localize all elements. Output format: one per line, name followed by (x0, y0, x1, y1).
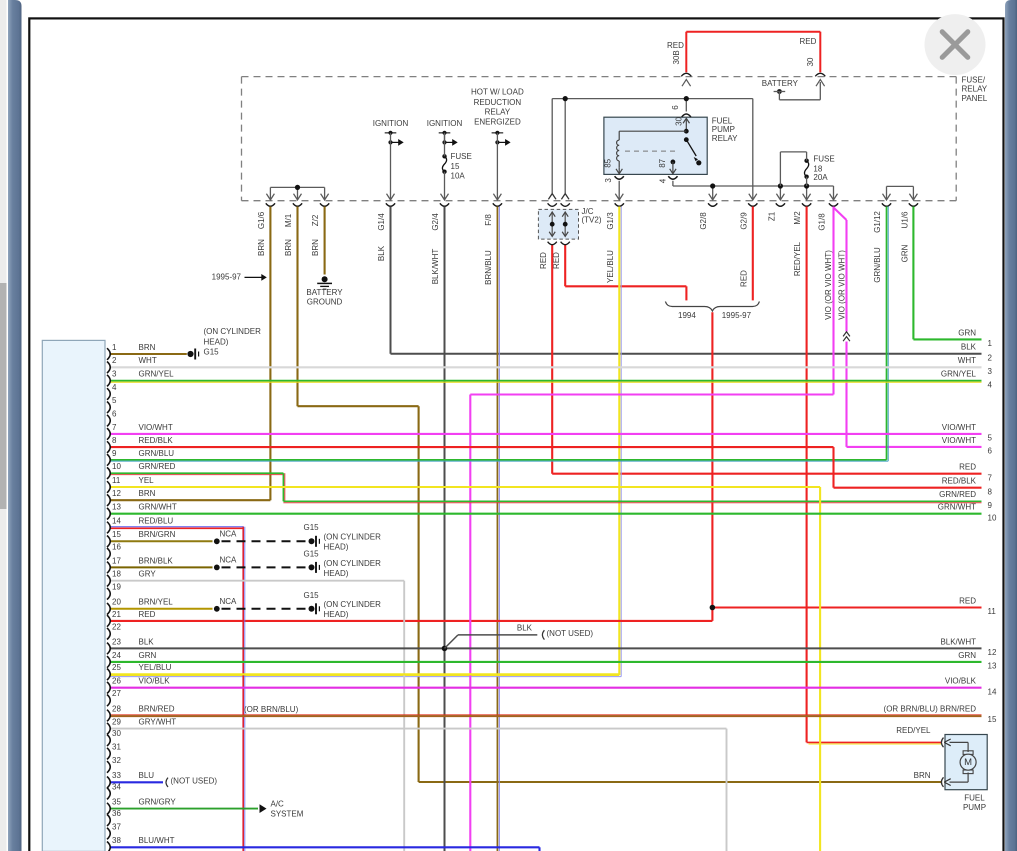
connector G2/9 (panel exit) (748, 194, 757, 207)
svg-text:28: 28 (112, 704, 121, 713)
svg-text:6: 6 (112, 410, 117, 419)
svg-text:GRN: GRN (958, 328, 976, 337)
svg-text:ENERGIZED: ENERGIZED (474, 117, 521, 126)
switched feed symbol HOT-W-LOAD (492, 131, 511, 200)
wire pin10 GRN/RED (110, 473, 982, 503)
inline connector on VIO branch 2 (843, 332, 851, 342)
not-used arc (pin23 stub) (542, 630, 544, 639)
wire RED top feed (30B to 30) (686, 32, 820, 73)
svg-text:13: 13 (988, 662, 997, 671)
svg-text:15: 15 (451, 162, 460, 171)
svg-text:20A: 20A (813, 173, 828, 182)
wire BRN header rail (270, 187, 324, 199)
svg-text:1: 1 (988, 339, 993, 348)
svg-text:FUSE: FUSE (451, 152, 472, 161)
svg-text:32: 32 (112, 756, 121, 765)
svg-text:G1/4: G1/4 (377, 213, 386, 231)
wire pin38 BLU/WHT (110, 847, 540, 851)
svg-text:25: 25 (112, 663, 121, 672)
junction dot relay 30 (684, 129, 689, 134)
label 87 (658, 158, 667, 167)
label FUSE 18 20A (813, 154, 834, 182)
svg-text:2: 2 (112, 356, 117, 365)
relay 87 arrow (670, 162, 676, 174)
svg-text:14: 14 (988, 687, 997, 696)
svg-text:10: 10 (988, 513, 997, 522)
fuse F15 10A (442, 133, 446, 200)
connector J/C feed b (561, 194, 570, 207)
svg-text:GRN/WHT: GRN/WHT (938, 503, 976, 512)
wire RED from brace (110, 312, 982, 621)
label connector G1/12 (873, 211, 882, 233)
svg-text:87: 87 (658, 158, 667, 167)
NCA splice dot (pin20) (214, 606, 220, 612)
connector 30 (panel top) (815, 73, 825, 86)
svg-text:30: 30 (806, 57, 815, 66)
svg-text:GRY/WHT: GRY/WHT (139, 718, 177, 727)
connector J/C feed a (548, 194, 557, 207)
junction dot BRN header (295, 185, 300, 190)
junction dot rail/M2 (804, 183, 809, 188)
svg-text:RED: RED (959, 463, 976, 472)
svg-text:(ON CYLINDER: (ON CYLINDER (204, 327, 262, 336)
svg-text:GRN/GRY: GRN/GRY (139, 798, 177, 807)
svg-text:BATTERY: BATTERY (306, 288, 343, 297)
label 30B (672, 50, 681, 64)
connector M/1 (panel exit) (293, 194, 302, 207)
pump feed connector (RED/YEL) (941, 738, 950, 748)
svg-text:15: 15 (988, 715, 997, 724)
wire bridge G1/12-U1/6 (887, 186, 914, 199)
brace 1994 / 1995-97 (665, 302, 759, 311)
svg-text:29: 29 (112, 718, 121, 727)
svg-text:YEL/BLU: YEL/BLU (139, 663, 172, 672)
svg-text:(TV2): (TV2) (582, 216, 602, 225)
svg-text:FUEL: FUEL (712, 116, 733, 125)
J/C internal wire b (562, 212, 568, 236)
NCA splice dot (pin17) (214, 565, 220, 571)
svg-text:GRN/BLU: GRN/BLU (873, 247, 882, 283)
svg-text:1995-97: 1995-97 (722, 311, 752, 320)
svg-text:BRN: BRN (257, 239, 266, 256)
relay terminal 3 cup (615, 176, 624, 179)
svg-text:16: 16 (112, 543, 121, 552)
J/C internal wire a (549, 212, 555, 236)
svg-text:RED: RED (740, 270, 749, 287)
svg-text:10A: 10A (451, 172, 466, 181)
label NCA (pin17) (220, 556, 238, 565)
svg-text:A/C: A/C (271, 800, 285, 809)
relay 85 arrow (616, 168, 622, 174)
J/C exit cups (548, 242, 570, 245)
svg-text:F/8: F/8 (484, 214, 493, 226)
svg-text:(NOT USED): (NOT USED) (547, 629, 594, 638)
wire J/C RED b column (565, 245, 686, 301)
connector M/2 (panel exit) (802, 194, 811, 207)
svg-text:11: 11 (988, 607, 997, 616)
right pin labels and numbers (884, 328, 997, 724)
svg-text:6: 6 (988, 447, 993, 456)
svg-text:85: 85 (603, 158, 612, 167)
svg-text:21: 21 (112, 610, 121, 619)
wire G1/8 VIO branch 2 (834, 208, 982, 447)
svg-text:20: 20 (112, 598, 121, 607)
svg-text:WHT: WHT (139, 356, 157, 365)
svg-text:HEAD): HEAD) (324, 610, 349, 619)
svg-text:RELAY: RELAY (485, 108, 511, 117)
label wire color GRN at x=905.5 (901, 244, 910, 262)
label 85 (603, 158, 612, 167)
ground G15 (pin20) (309, 603, 320, 614)
svg-text:23: 23 (112, 637, 121, 646)
label (OR BRN/BLU) (pin28) (244, 705, 299, 714)
battery terminal symbol (774, 89, 786, 94)
svg-text:G2/8: G2/8 (699, 212, 708, 230)
svg-text:PANEL: PANEL (962, 94, 988, 103)
svg-text:NCA: NCA (220, 529, 238, 538)
svg-text:(ON CYLINDER: (ON CYLINDER (324, 559, 382, 568)
right window edge strip (1005, 0, 1017, 851)
svg-text:FUEL: FUEL (964, 793, 985, 802)
connector 30B (panel top) (681, 73, 691, 86)
svg-text:12: 12 (112, 489, 121, 498)
label wire color RED/YEL at x=798 (793, 241, 802, 276)
wire pin11 YEL (110, 487, 820, 851)
svg-text:VIO/WHT: VIO/WHT (139, 423, 173, 432)
svg-text:BRN/BLU: BRN/BLU (484, 250, 493, 285)
svg-text:RED: RED (667, 41, 684, 50)
svg-text:BLK: BLK (377, 245, 386, 261)
svg-text:RED/BLK: RED/BLK (942, 477, 977, 486)
relay terminal 87 dot (671, 160, 676, 165)
svg-text:G1/3: G1/3 (606, 212, 615, 230)
svg-text:SYSTEM: SYSTEM (271, 810, 304, 819)
svg-text:VIO/WHT: VIO/WHT (942, 436, 976, 445)
connector G1/8 (panel exit) (829, 194, 838, 207)
connector G1/12 (panel exit) (882, 194, 891, 207)
svg-text:GRN/YEL: GRN/YEL (941, 370, 977, 379)
wire pin20 BRN/YEL (110, 608, 213, 610)
label wire color VIO (OR VIO WHT) at x=842.5 (838, 250, 847, 320)
svg-text:BRN: BRN (914, 771, 931, 780)
svg-text:5: 5 (988, 434, 993, 443)
label FUEL PUMP (963, 793, 986, 812)
wire pin25 YEL/BLU (110, 673, 619, 675)
label 1995-97 pointer (212, 273, 267, 282)
ground battery ground symbol (317, 276, 332, 289)
svg-text:RED/BLU: RED/BLU (139, 516, 174, 525)
svg-text:IGNITION: IGNITION (427, 119, 463, 128)
relay terminal 6 cup (682, 114, 691, 117)
left scrollbar thumb (0, 283, 7, 509)
svg-text:VIO (OR VIO WHT): VIO (OR VIO WHT) (824, 250, 833, 320)
svg-text:36: 36 (112, 809, 121, 818)
label wire color BLK at x=382 (377, 245, 386, 261)
label wire color BRN at x=316 (311, 239, 320, 256)
connector G1/3 (panel exit) (615, 194, 624, 207)
connector G2/4 (panel exit) (440, 194, 449, 207)
relay K1 fuel pump relay box (604, 117, 707, 174)
label FUEL PUMP RELAY (712, 116, 738, 143)
wire M/2 RED/YEL column (807, 207, 941, 745)
wire battery to connector 30 (779, 82, 820, 100)
svg-text:BATTERY: BATTERY (762, 79, 799, 88)
wire G1/12 GRN/BLU column (110, 207, 888, 462)
svg-text:5: 5 (112, 396, 117, 405)
svg-text:J/C: J/C (582, 207, 594, 216)
junction box J/C (TV2) (538, 209, 578, 239)
junction dot pin23/G2-4 (442, 646, 448, 652)
svg-text:GROUND: GROUND (307, 298, 343, 307)
svg-text:24: 24 (112, 651, 121, 660)
junction dot top rail / J/C b (563, 96, 568, 101)
ground G15 (pin17) (309, 562, 320, 573)
not-used arc (pin33) (166, 778, 168, 787)
wire G1/8 VIO branch 1 (470, 207, 833, 851)
svg-text:30: 30 (112, 729, 121, 738)
svg-text:GRY: GRY (139, 570, 157, 579)
wire G2/4 BLK/WHT column (444, 207, 446, 851)
ground G15 (pin15) (309, 536, 320, 547)
relay coil (617, 140, 620, 168)
svg-text:8: 8 (112, 436, 117, 445)
svg-text:G2/4: G2/4 (431, 213, 440, 231)
svg-text:31: 31 (112, 743, 121, 752)
wire G1/3 YEL/BLU column (110, 207, 621, 677)
svg-text:RELAY: RELAY (962, 85, 988, 94)
label connector Z/2 (311, 214, 320, 226)
svg-text:17: 17 (112, 556, 121, 565)
svg-text:G1/12: G1/12 (873, 211, 882, 233)
left scrollbar track (0, 0, 7, 851)
connector Z/2 (panel exit) (320, 194, 329, 207)
label G15 + (ON CYLINDER HEAD) (304, 523, 382, 551)
svg-text:RED: RED (800, 37, 817, 46)
svg-text:RED: RED (959, 596, 976, 605)
svg-text:9: 9 (988, 501, 993, 510)
svg-text:9: 9 (112, 449, 117, 458)
wire pin23 BLK (110, 647, 982, 649)
svg-text:1995-97: 1995-97 (212, 273, 242, 282)
svg-text:27: 27 (112, 689, 121, 698)
label wire color RED at x=557 (552, 252, 561, 269)
svg-text:(NOT USED): (NOT USED) (171, 777, 218, 786)
label 30 (806, 57, 815, 66)
svg-text:U1/6: U1/6 (901, 211, 910, 228)
label wire color BRN at x=262 (257, 239, 266, 256)
wire U1/6 GRN column (913, 207, 981, 340)
svg-text:G15: G15 (304, 523, 320, 532)
wire pin3 GRN/YEL (110, 381, 982, 383)
svg-text:(OR BRN/BLU): (OR BRN/BLU) (244, 705, 299, 714)
label connector U1/6 (901, 211, 910, 228)
svg-text:HEAD): HEAD) (324, 569, 349, 578)
wire pin24 GRN (110, 661, 982, 663)
svg-text:FUSE: FUSE (813, 154, 834, 163)
label connector G1/3 (606, 212, 615, 230)
wire pin2 WHT (110, 366, 982, 368)
label connector G2/8 (699, 212, 708, 230)
svg-text:Z1: Z1 (768, 211, 777, 221)
svg-text:30: 30 (674, 116, 683, 125)
left window edge strip (8, 0, 22, 851)
pump internal wiring (950, 742, 969, 782)
svg-text:NCA: NCA (220, 597, 238, 606)
pump feed connector (BRN) (941, 777, 950, 787)
label wire color GRN/BLU at x=878 (873, 247, 882, 283)
label (ON CYLINDER HEAD) G15 (pin1) (204, 327, 262, 357)
svg-text:(OR BRN/BLU) BRN/RED: (OR BRN/BLU) BRN/RED (884, 704, 977, 713)
svg-text:13: 13 (112, 503, 121, 512)
wire pin35 GRN/GRY (110, 808, 258, 810)
svg-text:Z/2: Z/2 (311, 214, 320, 226)
junction dot top rail / relay 6 (684, 96, 689, 101)
svg-text:BRN: BRN (284, 239, 293, 256)
svg-text:G15: G15 (304, 591, 320, 600)
svg-text:BRN/BLK: BRN/BLK (139, 556, 174, 565)
svg-text:BLK: BLK (517, 624, 533, 633)
label (NOT USED) (pin33) (171, 777, 218, 786)
label NCA (pin20) (220, 597, 238, 606)
svg-text:4: 4 (659, 178, 668, 183)
svg-text:30B: 30B (672, 50, 681, 64)
label 4 (relay) (659, 178, 668, 183)
label BATTERY (762, 79, 799, 88)
svg-text:37: 37 (112, 822, 121, 831)
svg-text:4: 4 (112, 383, 117, 392)
svg-text:GRN/YEL: GRN/YEL (139, 370, 175, 379)
svg-text:38: 38 (112, 836, 121, 845)
label G15 + (ON CYLINDER HEAD) (304, 550, 382, 578)
svg-text:RED: RED (552, 252, 561, 269)
svg-text:G15: G15 (204, 348, 220, 357)
relay coil wire (619, 131, 686, 140)
wire pin14 RED/BLU (110, 527, 245, 851)
wire relay 3 to G1/3 (618, 181, 620, 200)
svg-text:NCA: NCA (220, 556, 238, 565)
junction dot rail/Z1 (778, 183, 783, 188)
label wire color VIO (OR VIO WHT) at x=829 (824, 250, 833, 320)
wire top rail (J/C to G2/9) (552, 99, 753, 200)
wire pin1 BRN (110, 353, 187, 355)
connector G1/6 (panel exit) (266, 194, 275, 207)
label connector G1/4 (377, 213, 386, 231)
label RED (left) (667, 41, 684, 50)
fuse 15 gap mask (442, 145, 447, 197)
label connector M/2 (793, 211, 802, 225)
connector U1/6 (panel exit) (909, 194, 918, 207)
switched feed symbol IGNITION-1 (385, 131, 404, 200)
wire pin23 BLK stub (NOT USED) (445, 635, 538, 649)
svg-text:BLU: BLU (139, 771, 155, 780)
ground G15 (pin1) (187, 349, 198, 360)
svg-text:(ON CYLINDER: (ON CYLINDER (324, 600, 382, 609)
svg-text:12: 12 (988, 648, 997, 657)
svg-text:GRN: GRN (901, 244, 910, 262)
svg-text:VIO/BLK: VIO/BLK (945, 677, 977, 686)
svg-text:G2/9: G2/9 (740, 212, 749, 230)
svg-text:7: 7 (988, 473, 993, 482)
svg-text:VIO (OR VIO WHT): VIO (OR VIO WHT) (838, 250, 847, 320)
label IGNITION (2) (427, 119, 463, 128)
svg-text:RELAY: RELAY (712, 134, 738, 143)
label BRN (pump) (914, 771, 931, 780)
switched feed symbol IGNITION-2 (439, 131, 458, 200)
fuse F18 20A (780, 152, 808, 186)
relay switch fixed dot (684, 137, 689, 142)
svg-text:BRN: BRN (311, 239, 320, 256)
svg-text:14: 14 (112, 516, 121, 525)
wire pin17 BRN/BLK (110, 566, 213, 568)
svg-text:26: 26 (112, 677, 121, 686)
NCA splice dot (pin15) (214, 538, 220, 544)
wire pin13 GRN/WHT (110, 513, 982, 515)
svg-text:RED/YEL: RED/YEL (896, 726, 931, 735)
svg-text:4: 4 (988, 380, 993, 389)
svg-text:M: M (964, 757, 972, 768)
svg-text:PUMP: PUMP (712, 125, 735, 134)
left connector pin brackets (107, 348, 110, 851)
svg-text:35: 35 (112, 798, 121, 807)
label FUSE 15 10A (451, 152, 472, 181)
wire pin18 GRY (110, 581, 404, 851)
label wire color YEL/BLU at x=611 (606, 250, 615, 283)
svg-text:1: 1 (112, 343, 117, 352)
svg-text:BLK/WHT: BLK/WHT (940, 637, 976, 646)
label 1994 (678, 311, 696, 320)
label connector G1/8 (818, 213, 827, 231)
svg-text:M/1: M/1 (284, 213, 293, 227)
svg-text:G15: G15 (304, 550, 320, 559)
label connector G2/9 (740, 212, 749, 230)
label IGNITION (1) (373, 119, 409, 128)
relay terminal 4 cup (668, 176, 677, 179)
label connector G2/4 (431, 213, 440, 231)
relay internal dashed line (625, 150, 678, 152)
svg-text:3: 3 (112, 370, 117, 379)
fuel pump box (945, 735, 987, 790)
svg-text:VIO/WHT: VIO/WHT (942, 423, 976, 432)
label 30 (relay) (674, 116, 683, 125)
label wire color BRN at x=289 (284, 239, 293, 256)
svg-text:GRN/RED: GRN/RED (939, 490, 976, 499)
wire G1/4 BLK column (391, 207, 982, 354)
label FUSE/RELAY PANEL (962, 75, 988, 103)
junction dot rail/G2/8 (710, 183, 715, 188)
left connector box (42, 340, 105, 851)
junction dot row11 (710, 605, 716, 611)
svg-text:GRN/WHT: GRN/WHT (139, 503, 177, 512)
wire G1/6 BRN column (110, 207, 270, 501)
arrow A/C system (260, 804, 267, 813)
svg-text:FUSE/: FUSE/ (962, 75, 986, 84)
label BATTERY GROUND (306, 288, 343, 307)
svg-text:BLK/WHT: BLK/WHT (431, 249, 440, 285)
svg-text:GRN: GRN (139, 651, 157, 660)
svg-text:HOT W/ LOAD: HOT W/ LOAD (471, 88, 524, 97)
NCA dashed lead (pin17) (222, 566, 306, 568)
svg-text:RED: RED (139, 610, 156, 619)
svg-text:VIO/BLK: VIO/BLK (139, 677, 171, 686)
wire F/8 BRN/BLU column (497, 207, 499, 851)
label connector G1/6 (257, 211, 266, 229)
wire Z/2 BRN column (324, 207, 326, 275)
svg-text:19: 19 (112, 583, 121, 592)
fuse/relay panel dashed box (242, 77, 957, 201)
label wire color RED at x=744.5 (740, 270, 749, 287)
svg-text:BLU/WHT: BLU/WHT (139, 836, 175, 845)
label (NOT USED) (pin23) (547, 629, 594, 638)
